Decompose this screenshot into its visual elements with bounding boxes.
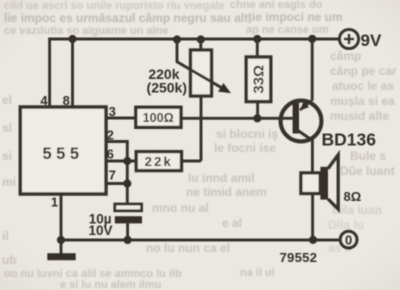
svg-text:ce vazdutia so aiguame un alne: ce vazdutia so aiguame un alne xyxy=(4,25,168,37)
svg-text:BD136: BD136 xyxy=(322,130,377,150)
IC U1 555 body xyxy=(20,107,106,194)
svg-text:7: 7 xyxy=(109,167,116,182)
node emitter-rail junction xyxy=(308,35,316,43)
wire pin 7 stub xyxy=(106,182,130,185)
node pin7 junction xyxy=(123,179,131,187)
wire pin 8 lead xyxy=(71,39,74,108)
wire pin 1 lead xyxy=(60,194,63,240)
svg-text:10V: 10V xyxy=(88,223,112,238)
wire pin 3 stub xyxy=(106,117,136,120)
svg-text:ap ne canse om: ap ne canse om xyxy=(246,24,329,36)
svg-text:4: 4 xyxy=(40,93,48,108)
svg-text:e si lu nu alem ilmu: e si lu nu alem ilmu xyxy=(60,279,161,290)
wire wiper arm xyxy=(177,39,223,88)
speaker horn xyxy=(328,155,338,209)
terminal plus sign xyxy=(344,34,354,44)
wire top supply rail xyxy=(49,38,339,41)
emitter arrowhead xyxy=(300,101,309,111)
wire pot bottom lead xyxy=(200,96,203,161)
transistor base bar xyxy=(293,103,299,134)
node pin1-rail junction xyxy=(57,236,65,244)
terminal 0 circle xyxy=(340,231,357,248)
resistor 22k body xyxy=(136,152,181,171)
node pin8-rail junction xyxy=(68,35,76,43)
svg-text:câmp: câmp xyxy=(330,49,361,63)
wire pin 4 lead xyxy=(48,38,51,109)
svg-text:0: 0 xyxy=(345,232,352,247)
svg-text:1: 1 xyxy=(51,195,58,210)
resistor 33ohm body xyxy=(246,57,271,102)
svg-text:na il ul: na il ul xyxy=(240,267,275,279)
wire pins 2-6-7 vertical xyxy=(126,140,129,205)
wire collector vertical xyxy=(311,139,314,173)
svg-text:il: il xyxy=(2,229,9,243)
svg-text:mi: mi xyxy=(2,175,16,189)
node 33ohm-rail junction xyxy=(253,35,261,43)
ground symbol xyxy=(47,253,75,260)
wire ground stub xyxy=(60,240,63,254)
speaker LS1 coil box xyxy=(301,173,320,194)
capacitor C1 bottom plate xyxy=(115,216,142,223)
terminal +9V circle xyxy=(339,29,358,48)
svg-text:(250k): (250k) xyxy=(147,80,187,96)
svg-text:musid alte: musid alte xyxy=(330,109,390,123)
wire pin 6 stub xyxy=(106,160,136,163)
svg-text:8: 8 xyxy=(63,93,70,108)
svg-text:33Ω: 33Ω xyxy=(251,65,268,94)
wire base lead xyxy=(181,117,293,120)
svg-text:el: el xyxy=(2,93,12,107)
svg-text:Bule s: Bule s xyxy=(350,149,386,163)
svg-text:79552: 79552 xyxy=(280,250,318,265)
wire pot top stub xyxy=(199,39,202,51)
svg-text:tie impoci ne um: tie impoci ne um xyxy=(248,10,343,24)
speaker magnet bar xyxy=(320,167,328,200)
svg-text:ub: ub xyxy=(2,253,17,267)
wire emitter vertical xyxy=(311,39,314,101)
resistor 100ohm body xyxy=(136,107,181,127)
wire pin 2 stub xyxy=(106,140,127,143)
svg-text:lu innd amil: lu innd amil xyxy=(188,171,255,185)
node pot-top-rail junction xyxy=(197,35,205,43)
svg-text:9V: 9V xyxy=(361,31,382,50)
svg-text:e al: e al xyxy=(222,216,242,230)
wire 33ohm bottom stub xyxy=(256,102,259,119)
svg-text:Dila lu: Dila lu xyxy=(328,218,364,232)
wire 33ohm top stub xyxy=(256,39,259,58)
svg-text:mno nu al: mno nu al xyxy=(152,201,209,215)
transistor emitter line xyxy=(300,101,312,111)
svg-text:sl: sl xyxy=(2,121,12,135)
svg-text:ne timid anem: ne timid anem xyxy=(186,185,267,199)
svg-text:no lu nun ca el: no lu nun ca el xyxy=(146,241,230,255)
transistor collector line xyxy=(295,129,312,141)
svg-text:si: si xyxy=(2,149,12,163)
node speaker-rail junction xyxy=(309,236,317,244)
svg-text:le focni ise: le focni ise xyxy=(214,141,276,155)
svg-text:cânp pe car: cânp pe car xyxy=(330,64,397,78)
capacitor C1 top plate xyxy=(115,204,142,211)
wire bottom ground rail xyxy=(61,239,340,242)
svg-text:si blocni iş: si blocni iş xyxy=(216,127,278,141)
transistor Q1 circle xyxy=(281,101,322,142)
svg-text:555: 555 xyxy=(42,145,83,163)
potentiometer P1 body 220k xyxy=(191,50,212,96)
svg-text:100Ω: 100Ω xyxy=(143,111,174,125)
svg-text:atuoc le as: atuoc le as xyxy=(332,79,394,93)
wiper arrowhead xyxy=(218,83,231,93)
node 33ohm-base junction xyxy=(253,114,261,122)
svg-text:lie impoc es urmăsazul câmp ne: lie impoc es urmăsazul câmp negru sau al… xyxy=(4,11,251,25)
node cap-rail junction xyxy=(124,236,132,244)
node wiper-rail junction xyxy=(173,35,181,43)
node pin6 junction xyxy=(123,157,131,165)
wire 22k right lead xyxy=(182,160,202,163)
wire cap bottom lead xyxy=(126,223,129,240)
svg-text:mușla si ea: mușla si ea xyxy=(330,94,395,108)
svg-text:8Ω: 8Ω xyxy=(344,189,362,204)
svg-text:Dûe luant: Dûe luant xyxy=(340,164,395,178)
wire speaker bottom lead xyxy=(311,194,314,241)
schematic ink layer xyxy=(20,29,382,264)
svg-text:6: 6 xyxy=(107,146,114,161)
svg-text:22k: 22k xyxy=(145,154,173,169)
